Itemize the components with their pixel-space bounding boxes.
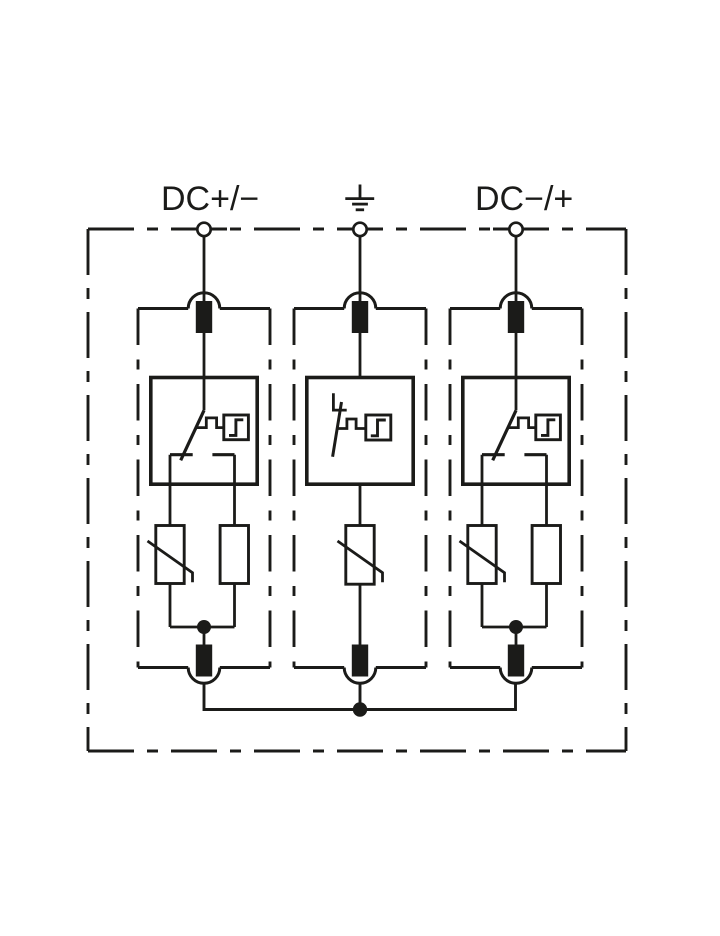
svg-text:DC−/+: DC−/+	[475, 180, 573, 218]
svg-text:DC+/−: DC+/−	[161, 180, 259, 218]
